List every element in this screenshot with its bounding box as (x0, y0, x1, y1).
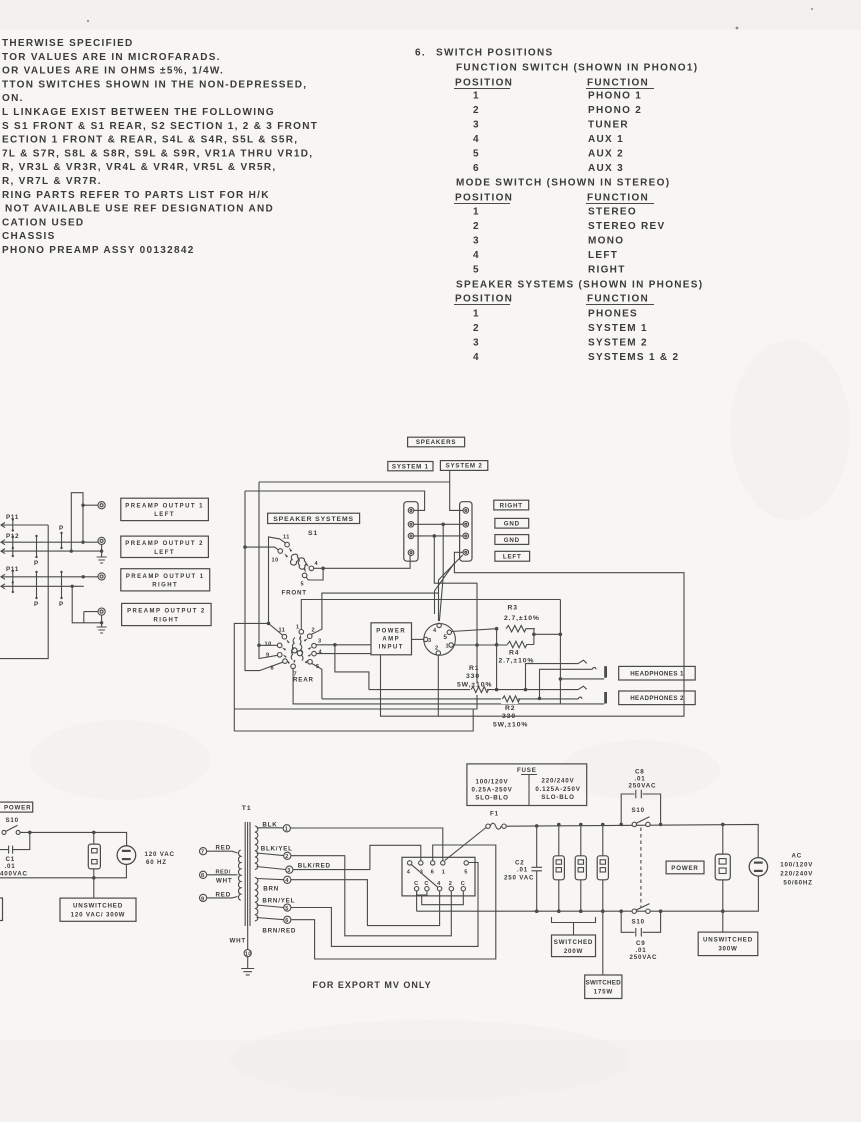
ground under jack2 (97, 557, 107, 563)
top AC rail (506, 824, 758, 857)
node dot front10 (243, 545, 247, 549)
wire W4 (preamp output 1 right) (1, 576, 98, 578)
resistor R4 (507, 641, 534, 647)
svg-text:4: 4 (437, 881, 441, 887)
selector top pin 5 (464, 861, 468, 865)
S1 rear pin 3 (312, 643, 317, 648)
node dot C2 top (535, 824, 539, 828)
DIN pin 3 (423, 637, 427, 641)
AC receptacle circle (export) (749, 858, 767, 876)
wire diag2 (435, 563, 455, 614)
svg-text:1: 1 (446, 644, 450, 650)
svg-text:REAR: REAR (293, 677, 314, 684)
wire US bottom run (0, 864, 126, 877)
label box PREAMP OUTPUT 2 LEFT (121, 536, 209, 557)
fuse table box (467, 764, 587, 806)
svg-text:CATION USED: CATION USED (2, 217, 84, 228)
wire W2 (preamp output 2 left) (1, 541, 98, 543)
svg-text:UNSWITCHED: UNSWITCHED (73, 903, 123, 910)
svg-text:3: 3 (287, 868, 291, 874)
svg-text:SPEAKER SYSTEMS: SPEAKER SYSTEMS (273, 516, 354, 523)
DIN pin 1 (449, 643, 453, 647)
wire R1 line (369, 686, 587, 689)
wire W1 (to box) (1, 524, 48, 526)
resistor R2 (501, 693, 518, 704)
wire jack2 gnd stem (101, 545, 103, 558)
node dot outlet tap (92, 831, 96, 835)
svg-text:3: 3 (318, 639, 322, 645)
label box POWER (US) (0, 802, 33, 812)
wire T2 run to system1 strip (245, 491, 425, 510)
svg-text:MONO: MONO (588, 236, 624, 247)
svg-text:PHONO PREAMP ASSY 00132842: PHONO PREAMP ASSY 00132842 (2, 245, 195, 256)
svg-text:175W: 175W (594, 989, 613, 996)
S1 rear pin 11 (282, 634, 287, 639)
svg-text:STEREO: STEREO (588, 207, 637, 218)
convenience outlet (US) (88, 844, 100, 869)
wire tap4 route to selector bottom pin4 (291, 880, 440, 926)
wire front pin4/5 to strip1 c4 (306, 556, 410, 580)
svg-text:RIGHT: RIGHT (152, 583, 178, 589)
svg-text:FRONT: FRONT (282, 590, 307, 597)
svg-text:PREAMP OUTPUT 1: PREAMP OUTPUT 1 (125, 504, 204, 510)
svg-text:2: 2 (449, 881, 453, 887)
svg-text:WHT: WHT (230, 938, 247, 945)
svg-text:10: 10 (245, 952, 252, 958)
terminal strip SYSTEM1 (404, 502, 418, 562)
arrow wire2 (1, 540, 5, 545)
wire jack4 ground run (72, 586, 101, 623)
svg-text:RED: RED (216, 845, 231, 852)
svg-text:WHT: WHT (216, 878, 233, 885)
label box SYSTEM 1 (388, 462, 433, 471)
selector bottom pin 2 (449, 887, 453, 891)
bus vertical A (245, 491, 283, 671)
S1 rear pin 7 (291, 664, 296, 669)
selector bottom pin C3 (461, 887, 465, 891)
wire jack1 loop (71, 493, 98, 551)
node dot sleeve1 (559, 677, 563, 681)
wire rear pin5 to R2 (312, 664, 322, 699)
node dot R1-R3R4 (495, 688, 499, 692)
svg-text:PREAMP OUTPUT 2: PREAMP OUTPUT 2 (127, 609, 206, 615)
board outline box (0, 525, 48, 659)
capacitor C9 snubber (621, 911, 660, 936)
svg-text:7L & S7R, S8L & S8R, S9L & S9R: 7L & S7R, S8L & S8R, S9L & S9R, VR1A THR… (2, 148, 313, 159)
DIN pin 4 (437, 623, 441, 627)
svg-text:C1: C1 (6, 856, 16, 863)
capacitor C2 (532, 826, 543, 911)
headphone common rail (559, 600, 561, 705)
svg-text:220/240V: 220/240V (780, 871, 813, 878)
secondary tap 2 (257, 853, 284, 856)
ground (T1 center tap) (241, 969, 254, 975)
svg-text:11: 11 (279, 628, 286, 634)
svg-text:.01: .01 (517, 867, 528, 874)
resistor R3 (506, 626, 535, 632)
svg-text:AUX 1: AUX 1 (588, 134, 624, 145)
svg-text:9: 9 (201, 896, 205, 902)
node dot jack4 gnd (100, 621, 103, 624)
svg-text:RED: RED (216, 892, 231, 899)
node dot on W5 (71, 585, 74, 588)
svg-text:1: 1 (473, 207, 480, 218)
S1 rear pin 4 (312, 651, 317, 656)
svg-text:C: C (461, 881, 466, 887)
svg-text:LEFT: LEFT (154, 550, 175, 556)
terminal strip SYSTEM2 (460, 502, 472, 562)
svg-text:4: 4 (433, 628, 437, 634)
wire tap5 route to selector pin5 (291, 863, 478, 947)
wire outlet stems (93, 832, 95, 877)
svg-text:5W,±10%: 5W,±10% (493, 722, 528, 729)
label box SPEAKERS (408, 437, 465, 447)
ground under jack4 (97, 627, 107, 633)
svg-text:6.: 6. (415, 48, 426, 59)
S1 rear pin 9 (277, 653, 282, 658)
primary terminal 7 (200, 848, 207, 855)
svg-text:8: 8 (271, 666, 275, 672)
svg-text:RIGHT: RIGHT (500, 502, 523, 509)
svg-text:4: 4 (315, 561, 319, 567)
svg-text:SWITCHED: SWITCHED (586, 980, 622, 987)
wire rear pin2 route (311, 593, 438, 634)
secondary tap 5 (257, 905, 284, 908)
node dot R4/R3 tie (495, 643, 499, 647)
faint scan mottling (30, 340, 850, 1100)
svg-text:C2: C2 (515, 860, 525, 867)
svg-text:120 VAC/ 300W: 120 VAC/ 300W (71, 912, 126, 919)
node dot rear3 (333, 643, 337, 647)
label box PREAMP OUTPUT 1 RIGHT (121, 569, 210, 591)
wire y709 run to R4 node (234, 536, 477, 709)
T1 primary winding (238, 850, 240, 900)
wire row2 gnd (414, 523, 463, 525)
S1 rear pin 8 (283, 659, 288, 664)
DIN pin 2 (436, 651, 440, 655)
jack J4 phono (98, 608, 105, 615)
svg-text:PREAMP OUTPUT 2: PREAMP OUTPUT 2 (125, 541, 204, 547)
svg-text:LEFT: LEFT (503, 554, 522, 561)
svg-text:OR VALUES ARE IN OHMS ±5%, 1/4: OR VALUES ARE IN OHMS ±5%, 1/4W. (2, 66, 224, 77)
wire to rear pin10 (259, 644, 277, 646)
arrow wire5 (1, 584, 5, 589)
rear arrows (286, 639, 289, 643)
center tap lead (247, 926, 249, 950)
arrow wire4 (1, 574, 5, 579)
wire to ground (247, 957, 249, 969)
plug pin bar P12 on W2 (12, 537, 14, 549)
svg-text:8: 8 (201, 873, 205, 879)
wire rear pin7 ground run (293, 669, 604, 704)
switch S1 REAR wiper 2 (299, 639, 303, 661)
plug pin bar P11 on W1 (12, 520, 14, 531)
svg-text:RIGHT: RIGHT (153, 617, 179, 623)
S1 rear pin 5 (308, 660, 313, 665)
svg-text:R, VR3L & VR3R, VR4L & VR4R, V: R, VR3L & VR3R, VR4L & VR4R, VR5L & VR5R… (2, 162, 276, 173)
node dot R3R4 tap (532, 633, 536, 637)
wire y731 run (234, 709, 473, 731)
label box PREAMP OUTPUT 1 LEFT (121, 498, 209, 520)
svg-text:3: 3 (473, 120, 480, 131)
svg-text:PHONES: PHONES (588, 309, 638, 320)
svg-text:P: P (59, 601, 64, 608)
S1 front pin 11 (285, 542, 290, 547)
svg-text:L LINKAGE EXIST BETWEEN THE FO: L LINKAGE EXIST BETWEEN THE FOLLOWING (2, 107, 275, 118)
selector top pin 1 (441, 861, 445, 865)
wire tap3 route to selector pin3 (293, 845, 421, 869)
switch S10 bottom (632, 909, 636, 913)
svg-text:NOT AVAILABLE USE REF DESIGNAT: NOT AVAILABLE USE REF DESIGNATION AND (5, 204, 274, 215)
node dot R1-tip1 (524, 688, 528, 692)
label box UNSWITCHED 300W (698, 932, 758, 956)
node dot R2 ring (538, 697, 542, 701)
svg-text:P: P (34, 560, 39, 567)
secondary tap 4 (257, 879, 284, 880)
svg-text:PHONO 2: PHONO 2 (588, 105, 642, 116)
svg-text:AMP: AMP (382, 637, 400, 643)
switch S1 FRONT wiper 2 (298, 558, 306, 569)
svg-text:T1: T1 (242, 805, 252, 812)
wire tap1 to selector pin1 (290, 828, 442, 860)
wire R2 line (322, 697, 582, 699)
svg-text:RED/: RED/ (216, 870, 231, 876)
node dot on W3 (70, 549, 73, 552)
wire DIN pin3 stub (412, 638, 424, 640)
bus vertical B (259, 482, 278, 659)
arrow wire3 (1, 549, 5, 554)
wire to front pin10 (245, 547, 278, 550)
svg-text:330: 330 (466, 673, 480, 680)
wire rear pin3 to power amp input (316, 644, 371, 646)
label box SPEAKER SYSTEMS (268, 513, 360, 523)
wire unswitched stem (93, 878, 95, 898)
terminal 10 (244, 950, 251, 957)
svg-text:HEADPHONES 2: HEADPHONES 2 (630, 695, 684, 702)
svg-text:FUNCTION: FUNCTION (587, 294, 649, 305)
arrow front a (289, 548, 293, 552)
svg-text:POWER: POWER (4, 805, 31, 812)
node dot rear11 (267, 622, 271, 626)
svg-text:LEFT: LEFT (588, 250, 618, 261)
svg-text:BRN/RED: BRN/RED (262, 928, 296, 935)
selector top pin 4 (408, 861, 412, 865)
svg-text:2: 2 (473, 221, 480, 232)
scan speck 2 (811, 8, 813, 10)
cut box at left edge (0, 898, 3, 921)
svg-text:C: C (414, 881, 419, 887)
arrow wire1 (1, 523, 5, 528)
svg-text:FOR EXPORT MV ONLY: FOR EXPORT MV ONLY (312, 980, 431, 990)
svg-text:POWER: POWER (376, 629, 406, 635)
svg-text:UNSWITCHED: UNSWITCHED (703, 937, 753, 944)
svg-text:4: 4 (473, 250, 480, 261)
svg-text:SLO-BLO: SLO-BLO (475, 795, 508, 802)
label box UNSWITCHED 120VAC/300W (60, 898, 136, 921)
svg-text:SWITCHED: SWITCHED (554, 939, 593, 946)
arrow front b (284, 554, 288, 558)
plug bar P at x61.5 wires 2-3 (61, 533, 63, 548)
connector DIN power amp (424, 624, 456, 656)
svg-text:INPUT: INPUT (379, 645, 404, 651)
svg-text:BLK/YEL: BLK/YEL (261, 846, 293, 853)
wire DIN pin1 to R4 (453, 644, 507, 646)
svg-text:60 HZ: 60 HZ (146, 859, 167, 866)
wire R3R4 right tie (534, 629, 561, 645)
svg-text:S S1 FRONT & S1 REAR, S2 SECTI: S S1 FRONT & S1 REAR, S2 SECTION 1, 2 & … (2, 121, 318, 132)
svg-text:2: 2 (473, 105, 480, 116)
svg-text:R2: R2 (505, 705, 516, 712)
svg-text:POWER: POWER (671, 865, 698, 872)
label box HEADPHONES 1 (619, 666, 696, 680)
wire R3R4 left drop to R1 (496, 629, 498, 690)
svg-text:2.7,±10%: 2.7,±10% (504, 615, 540, 622)
notes text block (left, cut off at page edge) (2, 38, 318, 256)
wire tap6 route to selector pin6 (291, 845, 496, 959)
gang dashed link (640, 828, 642, 908)
svg-text:S1: S1 (308, 530, 318, 537)
svg-text:POSITION: POSITION (455, 78, 513, 89)
svg-text:7: 7 (201, 850, 205, 856)
wire jack4 gnd stem (101, 623, 103, 627)
jack J3 phono (98, 573, 105, 580)
svg-text:P: P (59, 525, 64, 532)
svg-text:9: 9 (266, 653, 270, 659)
svg-text:R4: R4 (509, 650, 520, 657)
svg-text:FUNCTION SWITCH (SHOWN IN PHON: FUNCTION SWITCH (SHOWN IN PHONO1) (456, 63, 698, 74)
S1 rear pin 10 (277, 643, 282, 648)
resistor R1 (470, 683, 487, 695)
svg-text:1: 1 (473, 91, 480, 102)
node dot under jack2 (100, 549, 103, 552)
svg-text:4: 4 (285, 878, 289, 884)
svg-text:PHONO 1: PHONO 1 (588, 91, 642, 102)
svg-text:11: 11 (283, 535, 290, 541)
svg-text:POSITION: POSITION (455, 193, 513, 204)
svg-text:4: 4 (407, 870, 411, 876)
plug bar P at x61.5 wires 4-5 (61, 572, 63, 598)
scan speck (736, 27, 739, 30)
S1 rear pin 1 (299, 630, 304, 635)
svg-text:TOR VALUES ARE IN MICROFARADS.: TOR VALUES ARE IN MICROFARADS. (2, 52, 221, 63)
wire T1 top run to system2 strip (259, 470, 463, 510)
convenience outlet A (553, 856, 564, 880)
wire rear pin1 to headphone rail (301, 600, 560, 630)
label box POWER (export) (666, 861, 704, 874)
selector jumper diagonal (412, 865, 438, 888)
svg-text:TTON SWITCHES SHOWN IN THE NON: TTON SWITCHES SHOWN IN THE NON-DEPRESSED… (2, 79, 307, 90)
node dot row3 (433, 534, 437, 538)
T1 secondary winding upper (255, 826, 258, 869)
selector top pin 6 (431, 861, 435, 865)
wire unswitched 300w stem (722, 911, 724, 932)
label box PREAMP OUTPUT 2 RIGHT (122, 603, 212, 625)
wire jack1 sleeve (560, 678, 604, 680)
label box RIGHT (494, 500, 529, 510)
svg-text:6: 6 (285, 918, 289, 924)
svg-text:LEFT: LEFT (154, 512, 175, 518)
scan speck 3 (87, 20, 89, 22)
label box SYSTEM 2 (440, 461, 487, 471)
wire DIN pin2 drop (437, 655, 439, 716)
wire row2 drop (439, 524, 443, 621)
svg-text:250VAC: 250VAC (629, 783, 657, 790)
wire rear pin4 to power amp input (316, 653, 371, 655)
primary terminal 9 (200, 894, 207, 901)
svg-text:AUX 2: AUX 2 (588, 149, 624, 160)
svg-text:S10: S10 (632, 919, 645, 926)
jack2 sleeve bar (604, 692, 607, 704)
svg-text:SLO-BLO: SLO-BLO (541, 794, 574, 801)
switch S1 FRONT wiper (290, 554, 298, 565)
T1 secondary winding lower (255, 878, 258, 921)
node dot on W4 (82, 575, 85, 578)
svg-text:5: 5 (473, 149, 480, 160)
svg-text:1: 1 (285, 827, 289, 833)
capacitor C1 (0, 832, 30, 853)
svg-text:2: 2 (473, 323, 480, 334)
convenience outlet B (575, 856, 586, 880)
svg-text:4: 4 (319, 650, 323, 656)
S1 rear pin 2 (307, 634, 312, 639)
svg-text:C: C (424, 881, 429, 887)
convenience outlet right (715, 854, 730, 880)
svg-text:5W,±10%: 5W,±10% (457, 682, 492, 689)
wire DIN pin5 to R3 (452, 629, 497, 632)
selector bottom pin C2 (425, 887, 429, 891)
voltage selector block (402, 857, 475, 896)
svg-text:C9: C9 (636, 940, 646, 947)
svg-text:R3: R3 (508, 605, 519, 612)
wire ring jack1 (540, 667, 597, 698)
svg-text:2: 2 (435, 646, 439, 652)
svg-text:250VAC: 250VAC (630, 954, 658, 961)
node dot front45 (321, 567, 325, 571)
S1 front pin 10 (278, 549, 283, 554)
svg-text:SWITCH POSITIONS: SWITCH POSITIONS (436, 48, 553, 59)
secondary tap 3 (257, 867, 286, 870)
svg-text:10: 10 (272, 558, 279, 564)
svg-text:300W: 300W (718, 946, 737, 953)
svg-text:1: 1 (296, 625, 300, 631)
svg-text:6: 6 (473, 163, 480, 174)
svg-text:SYSTEM 2: SYSTEM 2 (446, 463, 483, 470)
svg-text:AUX 3: AUX 3 (588, 163, 624, 174)
svg-text:4: 4 (473, 352, 480, 363)
svg-text:3: 3 (473, 236, 480, 247)
label box SWITCHED 200W (552, 935, 596, 957)
svg-text:10: 10 (265, 642, 272, 648)
svg-text:POSITION: POSITION (455, 294, 513, 305)
svg-text:5: 5 (464, 870, 468, 876)
svg-text:P: P (34, 601, 39, 608)
wire C to C3 (422, 891, 464, 905)
jumper C-C (417, 891, 427, 895)
label box HEADPHONES 2 (619, 691, 696, 705)
selector bottom pin C (414, 887, 418, 891)
svg-text:ON.: ON. (2, 93, 24, 104)
wire R1 feed (335, 645, 369, 690)
secondary tap 6 (257, 918, 284, 920)
node dot on W2 (81, 541, 84, 544)
svg-text:.01: .01 (5, 863, 16, 870)
svg-text:6: 6 (431, 870, 435, 876)
node dot jack1 stem (81, 504, 84, 507)
svg-text:3: 3 (473, 338, 480, 349)
svg-text:BRN/YEL: BRN/YEL (262, 898, 295, 905)
plug pin bar on W3 (12, 547, 14, 557)
svg-text:330: 330 (502, 713, 516, 720)
